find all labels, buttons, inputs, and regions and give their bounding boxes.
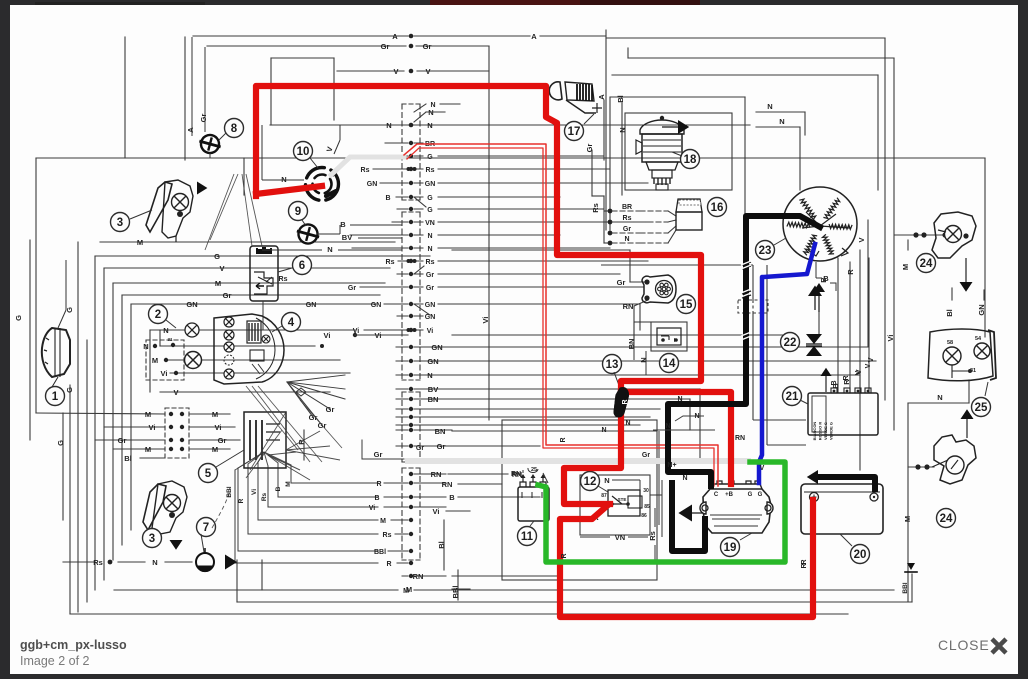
svg-text:Rs: Rs bbox=[623, 215, 632, 222]
wire node Gr bbox=[452, 408, 660, 410]
wire bbox=[603, 196, 605, 243]
svg-text:Vi: Vi bbox=[215, 423, 222, 432]
wire node V bbox=[337, 70, 404, 72]
wire bbox=[818, 312, 820, 335]
wire right rail bbox=[907, 403, 909, 602]
svg-text:R: R bbox=[622, 399, 629, 404]
svg-text:10: 10 bbox=[297, 146, 310, 158]
svg-text:VERDE G: VERDE G bbox=[823, 422, 828, 440]
svg-text:M: M bbox=[901, 264, 910, 270]
black cable battery bbox=[820, 477, 875, 489]
wire node V bbox=[868, 258, 870, 392]
wire long horizontal bbox=[36, 157, 985, 159]
svg-text:V: V bbox=[855, 370, 862, 375]
wire frame bbox=[628, 57, 894, 59]
arrow bbox=[813, 283, 825, 292]
arrow bbox=[197, 182, 207, 195]
svg-text:VERDE G: VERDE G bbox=[829, 422, 834, 440]
wire bbox=[767, 444, 806, 446]
svg-text:25: 25 bbox=[975, 402, 988, 414]
fuse body overlay bbox=[614, 388, 629, 417]
wire left bus bbox=[86, 340, 88, 602]
wire node RN bbox=[448, 473, 508, 475]
lamp unit 1 bbox=[46, 387, 65, 406]
wire node BN bbox=[452, 430, 657, 432]
svg-text:N: N bbox=[430, 102, 435, 109]
svg-text:M: M bbox=[380, 518, 386, 525]
wire node Gr bbox=[630, 281, 645, 283]
wire rail bbox=[414, 589, 894, 591]
wire bbox=[236, 560, 238, 602]
svg-text:N: N bbox=[427, 233, 432, 240]
wire left bus bbox=[112, 283, 114, 560]
svg-text:A: A bbox=[186, 127, 195, 133]
black cable magneto to regulator bbox=[668, 216, 820, 486]
wire node N bbox=[452, 374, 860, 376]
svg-text:ROSSO R: ROSSO R bbox=[818, 422, 823, 441]
wire node V bbox=[859, 250, 861, 392]
wire node R bbox=[849, 262, 851, 392]
wire bbox=[261, 560, 263, 590]
svg-text:14: 14 bbox=[663, 358, 676, 370]
wire bbox=[908, 466, 934, 468]
wire node A bbox=[193, 35, 408, 37]
wire bbox=[893, 58, 895, 430]
arrow bbox=[678, 120, 689, 134]
wire box bbox=[502, 420, 657, 580]
harness fan below 5 bbox=[235, 452, 264, 470]
switch 24 (top) bbox=[932, 212, 976, 258]
svg-text:RN: RN bbox=[623, 302, 634, 311]
rectifier 21 bbox=[808, 393, 878, 435]
svg-text:Gr: Gr bbox=[426, 272, 434, 279]
svg-text:Rs: Rs bbox=[591, 203, 600, 213]
svg-text:Gr: Gr bbox=[642, 452, 650, 459]
svg-text:M: M bbox=[145, 410, 151, 419]
svg-text:M: M bbox=[903, 516, 912, 522]
wire box 18 bbox=[625, 113, 732, 190]
svg-text:Vi: Vi bbox=[324, 331, 331, 340]
svg-text:N: N bbox=[624, 236, 629, 243]
svg-text:N: N bbox=[386, 121, 391, 130]
wire node G bbox=[95, 255, 430, 257]
svg-text:Rs: Rs bbox=[426, 259, 435, 266]
svg-text:58: 58 bbox=[947, 340, 953, 346]
svg-text:B: B bbox=[823, 274, 829, 283]
extra harness diagonals bbox=[212, 386, 342, 528]
switch 24 (bottom) bbox=[934, 435, 976, 484]
wire node M bbox=[165, 359, 340, 361]
wire node Gr bbox=[452, 424, 640, 426]
wire rail M bbox=[114, 589, 398, 591]
wire bbox=[267, 466, 269, 507]
wire rail bbox=[237, 601, 912, 603]
arrow bbox=[808, 286, 822, 297]
wire bbox=[951, 288, 953, 300]
wire node Vi bbox=[170, 372, 350, 374]
wire bbox=[69, 385, 71, 614]
svg-text:BIANCON: BIANCON bbox=[812, 422, 817, 441]
svg-text:G: G bbox=[427, 195, 433, 202]
svg-text:G: G bbox=[758, 492, 763, 498]
svg-text:Vi: Vi bbox=[481, 317, 490, 324]
connector 16 wires bbox=[608, 209, 613, 214]
svg-text:N: N bbox=[604, 476, 609, 485]
svg-text:GN: GN bbox=[306, 302, 317, 309]
switch 3 (rear) bbox=[143, 484, 166, 530]
wire node B bbox=[837, 258, 839, 392]
lamp bbox=[185, 323, 199, 337]
svg-text:6: 6 bbox=[299, 260, 305, 272]
switch 3 (front) bbox=[146, 182, 172, 232]
svg-text:17: 17 bbox=[568, 126, 581, 138]
wire node N bbox=[270, 124, 750, 126]
flywheel magneto 23 bbox=[783, 187, 857, 261]
svg-text:N: N bbox=[937, 393, 942, 402]
connector (dashed) bbox=[165, 408, 189, 458]
wire node M bbox=[36, 413, 165, 414]
indicator 8 bbox=[225, 119, 244, 138]
svg-text:Bl: Bl bbox=[124, 454, 132, 463]
svg-text:Rs: Rs bbox=[93, 558, 103, 567]
svg-text:R: R bbox=[561, 553, 568, 558]
wire box 14 bbox=[651, 322, 687, 351]
svg-text:N: N bbox=[601, 427, 606, 434]
wire bbox=[601, 264, 753, 266]
svg-text:V: V bbox=[393, 67, 398, 76]
connector strip details bbox=[407, 167, 411, 171]
wire node Gr bbox=[207, 45, 406, 47]
svg-text:M: M bbox=[215, 279, 221, 288]
wire left frame bbox=[35, 158, 37, 413]
wire bbox=[124, 37, 126, 158]
blue cable bbox=[759, 244, 815, 483]
svg-text:RN: RN bbox=[511, 471, 521, 478]
svg-text:Gr: Gr bbox=[423, 42, 432, 51]
svg-text:Vi: Vi bbox=[161, 369, 168, 378]
svg-text:N: N bbox=[163, 326, 168, 335]
wire frame bbox=[606, 37, 885, 39]
svg-text:Vi: Vi bbox=[369, 505, 376, 512]
svg-text:Vi: Vi bbox=[251, 489, 258, 495]
svg-text:BV: BV bbox=[342, 233, 352, 242]
wire bbox=[184, 37, 186, 160]
junction 15 bbox=[642, 275, 676, 303]
svg-text:M: M bbox=[212, 445, 218, 454]
svg-text:GN: GN bbox=[427, 357, 438, 366]
wire left bus bbox=[103, 268, 105, 580]
svg-text:N: N bbox=[665, 423, 670, 430]
svg-text:N: N bbox=[779, 117, 784, 126]
wire bbox=[270, 58, 272, 125]
wire left bus bbox=[121, 295, 123, 545]
svg-text:Rs: Rs bbox=[361, 167, 370, 174]
svg-text:Gr: Gr bbox=[437, 442, 446, 451]
svg-text:24: 24 bbox=[940, 513, 953, 525]
wire left bus bbox=[130, 304, 132, 530]
svg-text:V: V bbox=[425, 67, 430, 76]
svg-text:Gr: Gr bbox=[381, 42, 390, 51]
connector strip (dashed) central bbox=[401, 104, 403, 200]
svg-text:Rs: Rs bbox=[383, 532, 392, 539]
svg-text:Gr: Gr bbox=[585, 144, 594, 153]
svg-text:Gr: Gr bbox=[374, 450, 383, 459]
svg-text:Gr: Gr bbox=[218, 436, 227, 445]
svg-text:G: G bbox=[56, 440, 65, 446]
svg-text:RN: RN bbox=[442, 480, 453, 489]
wire bbox=[752, 265, 754, 300]
wire node M bbox=[100, 241, 395, 243]
arrow bbox=[960, 282, 973, 292]
horn 7 bbox=[197, 518, 216, 537]
fuse 13 bbox=[603, 355, 622, 374]
svg-text:+B: +B bbox=[725, 492, 734, 498]
horn symbol bbox=[196, 553, 214, 571]
pilot lamp 9 bbox=[289, 202, 308, 221]
svg-text:C: C bbox=[714, 492, 719, 498]
svg-text:12: 12 bbox=[584, 476, 597, 488]
svg-text:3: 3 bbox=[117, 217, 123, 229]
wire bbox=[753, 419, 806, 421]
gray cable (sheathed harness) bbox=[331, 157, 404, 175]
svg-text:BN: BN bbox=[627, 339, 636, 350]
svg-text:18: 18 bbox=[684, 154, 697, 166]
svg-text:3: 3 bbox=[149, 533, 155, 545]
red cable battery feed bbox=[564, 392, 621, 504]
svg-text:85: 85 bbox=[644, 504, 650, 510]
svg-text:V: V bbox=[760, 465, 765, 472]
wire bbox=[290, 465, 292, 483]
svg-text:M: M bbox=[403, 588, 409, 595]
wire node R bbox=[395, 84, 545, 86]
svg-text:N: N bbox=[767, 102, 772, 111]
wire node V bbox=[160, 391, 330, 393]
pilot lamps 2 bbox=[149, 305, 168, 324]
wire node Rs bbox=[63, 561, 95, 563]
svg-text:15: 15 bbox=[680, 299, 693, 311]
svg-text:G: G bbox=[748, 492, 753, 498]
svg-text:BN: BN bbox=[428, 395, 439, 404]
svg-text:G: G bbox=[214, 252, 220, 261]
svg-text:Vi: Vi bbox=[886, 335, 895, 342]
svg-text:Bl: Bl bbox=[616, 95, 625, 103]
wire node GN bbox=[452, 346, 868, 348]
svg-text:N: N bbox=[427, 246, 432, 253]
svg-text:Rs: Rs bbox=[386, 259, 395, 266]
svg-text:Image 2 of 2: Image 2 of 2 bbox=[20, 654, 90, 668]
svg-text:R: R bbox=[238, 498, 245, 503]
svg-text:N: N bbox=[639, 357, 648, 362]
svg-text:G: G bbox=[427, 207, 433, 214]
ignition switch 10 bbox=[306, 168, 341, 201]
svg-text:M: M bbox=[152, 356, 158, 365]
svg-text:GN: GN bbox=[371, 302, 382, 309]
svg-text:GN: GN bbox=[425, 181, 436, 188]
svg-text:N: N bbox=[427, 121, 432, 130]
wire bbox=[457, 570, 459, 600]
arrow bbox=[678, 505, 692, 522]
svg-text:4: 4 bbox=[288, 317, 295, 329]
svg-text:20: 20 bbox=[854, 549, 867, 561]
svg-text:A: A bbox=[392, 32, 398, 41]
svg-text:87: 87 bbox=[601, 493, 607, 499]
svg-text:N: N bbox=[427, 371, 432, 380]
fuse body bbox=[614, 388, 629, 417]
svg-text:M: M bbox=[212, 410, 218, 419]
svg-text:R: R bbox=[386, 561, 391, 568]
wire bbox=[877, 75, 879, 190]
svg-text:V: V bbox=[866, 357, 875, 362]
svg-text:BV: BV bbox=[428, 385, 438, 394]
svg-text:N: N bbox=[327, 245, 332, 254]
svg-text:11: 11 bbox=[521, 531, 534, 543]
wire node N bbox=[756, 111, 805, 113]
svg-text:Rs: Rs bbox=[279, 276, 288, 283]
svg-text:Vi: Vi bbox=[427, 328, 434, 335]
svg-text:B: B bbox=[275, 486, 282, 491]
wire right bus bbox=[867, 220, 869, 347]
svg-text:Gr: Gr bbox=[223, 291, 232, 300]
handlebar switch 4 bbox=[214, 314, 284, 384]
svg-text:B: B bbox=[449, 493, 455, 502]
svg-text:V: V bbox=[219, 264, 224, 273]
svg-text:V: V bbox=[857, 237, 866, 242]
svg-text:Vi: Vi bbox=[149, 423, 156, 432]
svg-text:16: 16 bbox=[711, 202, 724, 214]
arrow bbox=[807, 470, 818, 484]
svg-text:N: N bbox=[152, 558, 157, 567]
svg-text:8: 8 bbox=[231, 123, 238, 135]
connector rows bbox=[385, 142, 408, 144]
svg-text:23: 23 bbox=[759, 245, 772, 257]
svg-text:B: B bbox=[831, 380, 838, 385]
svg-text:M: M bbox=[285, 481, 292, 486]
svg-text:19: 19 bbox=[724, 542, 737, 554]
svg-text:N: N bbox=[677, 396, 682, 403]
svg-text:BBl: BBl bbox=[451, 586, 460, 599]
wire node GN bbox=[452, 360, 876, 362]
svg-text:5: 5 bbox=[205, 468, 212, 480]
ignition lock 6 bbox=[250, 246, 278, 301]
wire node N bbox=[150, 329, 355, 331]
wire node Gr bbox=[452, 445, 540, 447]
wire bbox=[884, 38, 886, 400]
svg-text:31: 31 bbox=[167, 337, 173, 342]
background page header remnants bbox=[430, 0, 580, 6]
wire node Gr bbox=[452, 416, 650, 418]
svg-text:RN: RN bbox=[735, 435, 745, 442]
svg-text:VN: VN bbox=[425, 220, 435, 227]
wire to tail lamp bbox=[984, 158, 986, 337]
svg-text:V: V bbox=[173, 388, 178, 397]
svg-text:GN: GN bbox=[186, 300, 197, 309]
svg-text:M: M bbox=[137, 238, 143, 247]
svg-text:G: G bbox=[14, 315, 23, 321]
svg-text:1: 1 bbox=[52, 391, 59, 403]
svg-text:BN: BN bbox=[435, 427, 446, 436]
svg-text:BBl: BBl bbox=[374, 549, 386, 556]
wire bbox=[605, 30, 607, 230]
svg-text:RN: RN bbox=[413, 572, 424, 581]
connector (dashed) bbox=[738, 300, 768, 313]
horn 17 bbox=[549, 82, 562, 100]
wire node BV bbox=[452, 388, 700, 390]
wire bbox=[247, 464, 249, 534]
svg-text:Gr: Gr bbox=[617, 278, 626, 287]
svg-text:21: 21 bbox=[786, 391, 799, 403]
svg-text:N: N bbox=[682, 475, 687, 482]
svg-text:2: 2 bbox=[155, 309, 161, 321]
light switch 5 bbox=[244, 412, 286, 468]
wire bbox=[911, 574, 913, 602]
wire node BN bbox=[452, 398, 690, 400]
svg-text:BBl: BBl bbox=[226, 486, 233, 497]
red cable (main R feed) bbox=[256, 86, 731, 484]
svg-text:Vi: Vi bbox=[433, 507, 440, 516]
wire node N bbox=[908, 402, 969, 404]
headlamp 1 bbox=[42, 328, 70, 377]
svg-text:7: 7 bbox=[203, 522, 209, 534]
wire bbox=[257, 462, 259, 520]
lamp bbox=[185, 352, 202, 369]
svg-text:R: R bbox=[560, 437, 567, 442]
arrow bbox=[170, 540, 183, 550]
svg-text:BBl: BBl bbox=[902, 582, 909, 593]
svg-text:G: G bbox=[65, 387, 74, 393]
svg-text:R: R bbox=[843, 375, 850, 380]
regulator 19 bbox=[703, 489, 771, 533]
wire bbox=[29, 240, 31, 440]
cable ticks bbox=[741, 261, 751, 340]
wire bbox=[333, 58, 335, 120]
wire bbox=[243, 158, 245, 195]
wire bbox=[895, 234, 948, 236]
svg-text:VN: VN bbox=[615, 533, 625, 542]
wire bbox=[639, 304, 641, 330]
CDI unit 11 bbox=[518, 487, 549, 521]
wire bbox=[756, 126, 800, 128]
svg-text:GN: GN bbox=[977, 304, 986, 315]
wire bbox=[303, 430, 305, 460]
wire node B bbox=[458, 496, 540, 498]
svg-text:R: R bbox=[846, 269, 855, 275]
wire bbox=[277, 463, 279, 497]
svg-text:24: 24 bbox=[920, 258, 933, 270]
arrow bbox=[225, 555, 237, 570]
wire bbox=[271, 57, 334, 59]
svg-text:Bl: Bl bbox=[437, 541, 446, 549]
wire bus bbox=[488, 46, 490, 420]
svg-text:ggb+cm_px-lusso: ggb+cm_px-lusso bbox=[20, 638, 127, 652]
wire node Gr bbox=[122, 294, 380, 296]
svg-text:N: N bbox=[625, 420, 630, 427]
wire left bus bbox=[94, 256, 96, 590]
svg-text:Gr: Gr bbox=[426, 285, 434, 292]
svg-text:STE: STE bbox=[618, 497, 627, 502]
connector 16 bbox=[676, 199, 702, 212]
svg-text:A: A bbox=[531, 32, 537, 41]
svg-text:A: A bbox=[597, 94, 606, 100]
svg-text:Gr: Gr bbox=[348, 285, 356, 292]
svg-text:Gr: Gr bbox=[199, 114, 208, 123]
svg-text:G: G bbox=[427, 154, 433, 161]
svg-text:Gr: Gr bbox=[623, 226, 631, 233]
wire bbox=[234, 470, 236, 563]
svg-text:Gr: Gr bbox=[416, 445, 424, 452]
svg-text:Rs: Rs bbox=[426, 167, 435, 174]
svg-text:86: 86 bbox=[641, 513, 647, 519]
wire node M bbox=[452, 588, 470, 590]
